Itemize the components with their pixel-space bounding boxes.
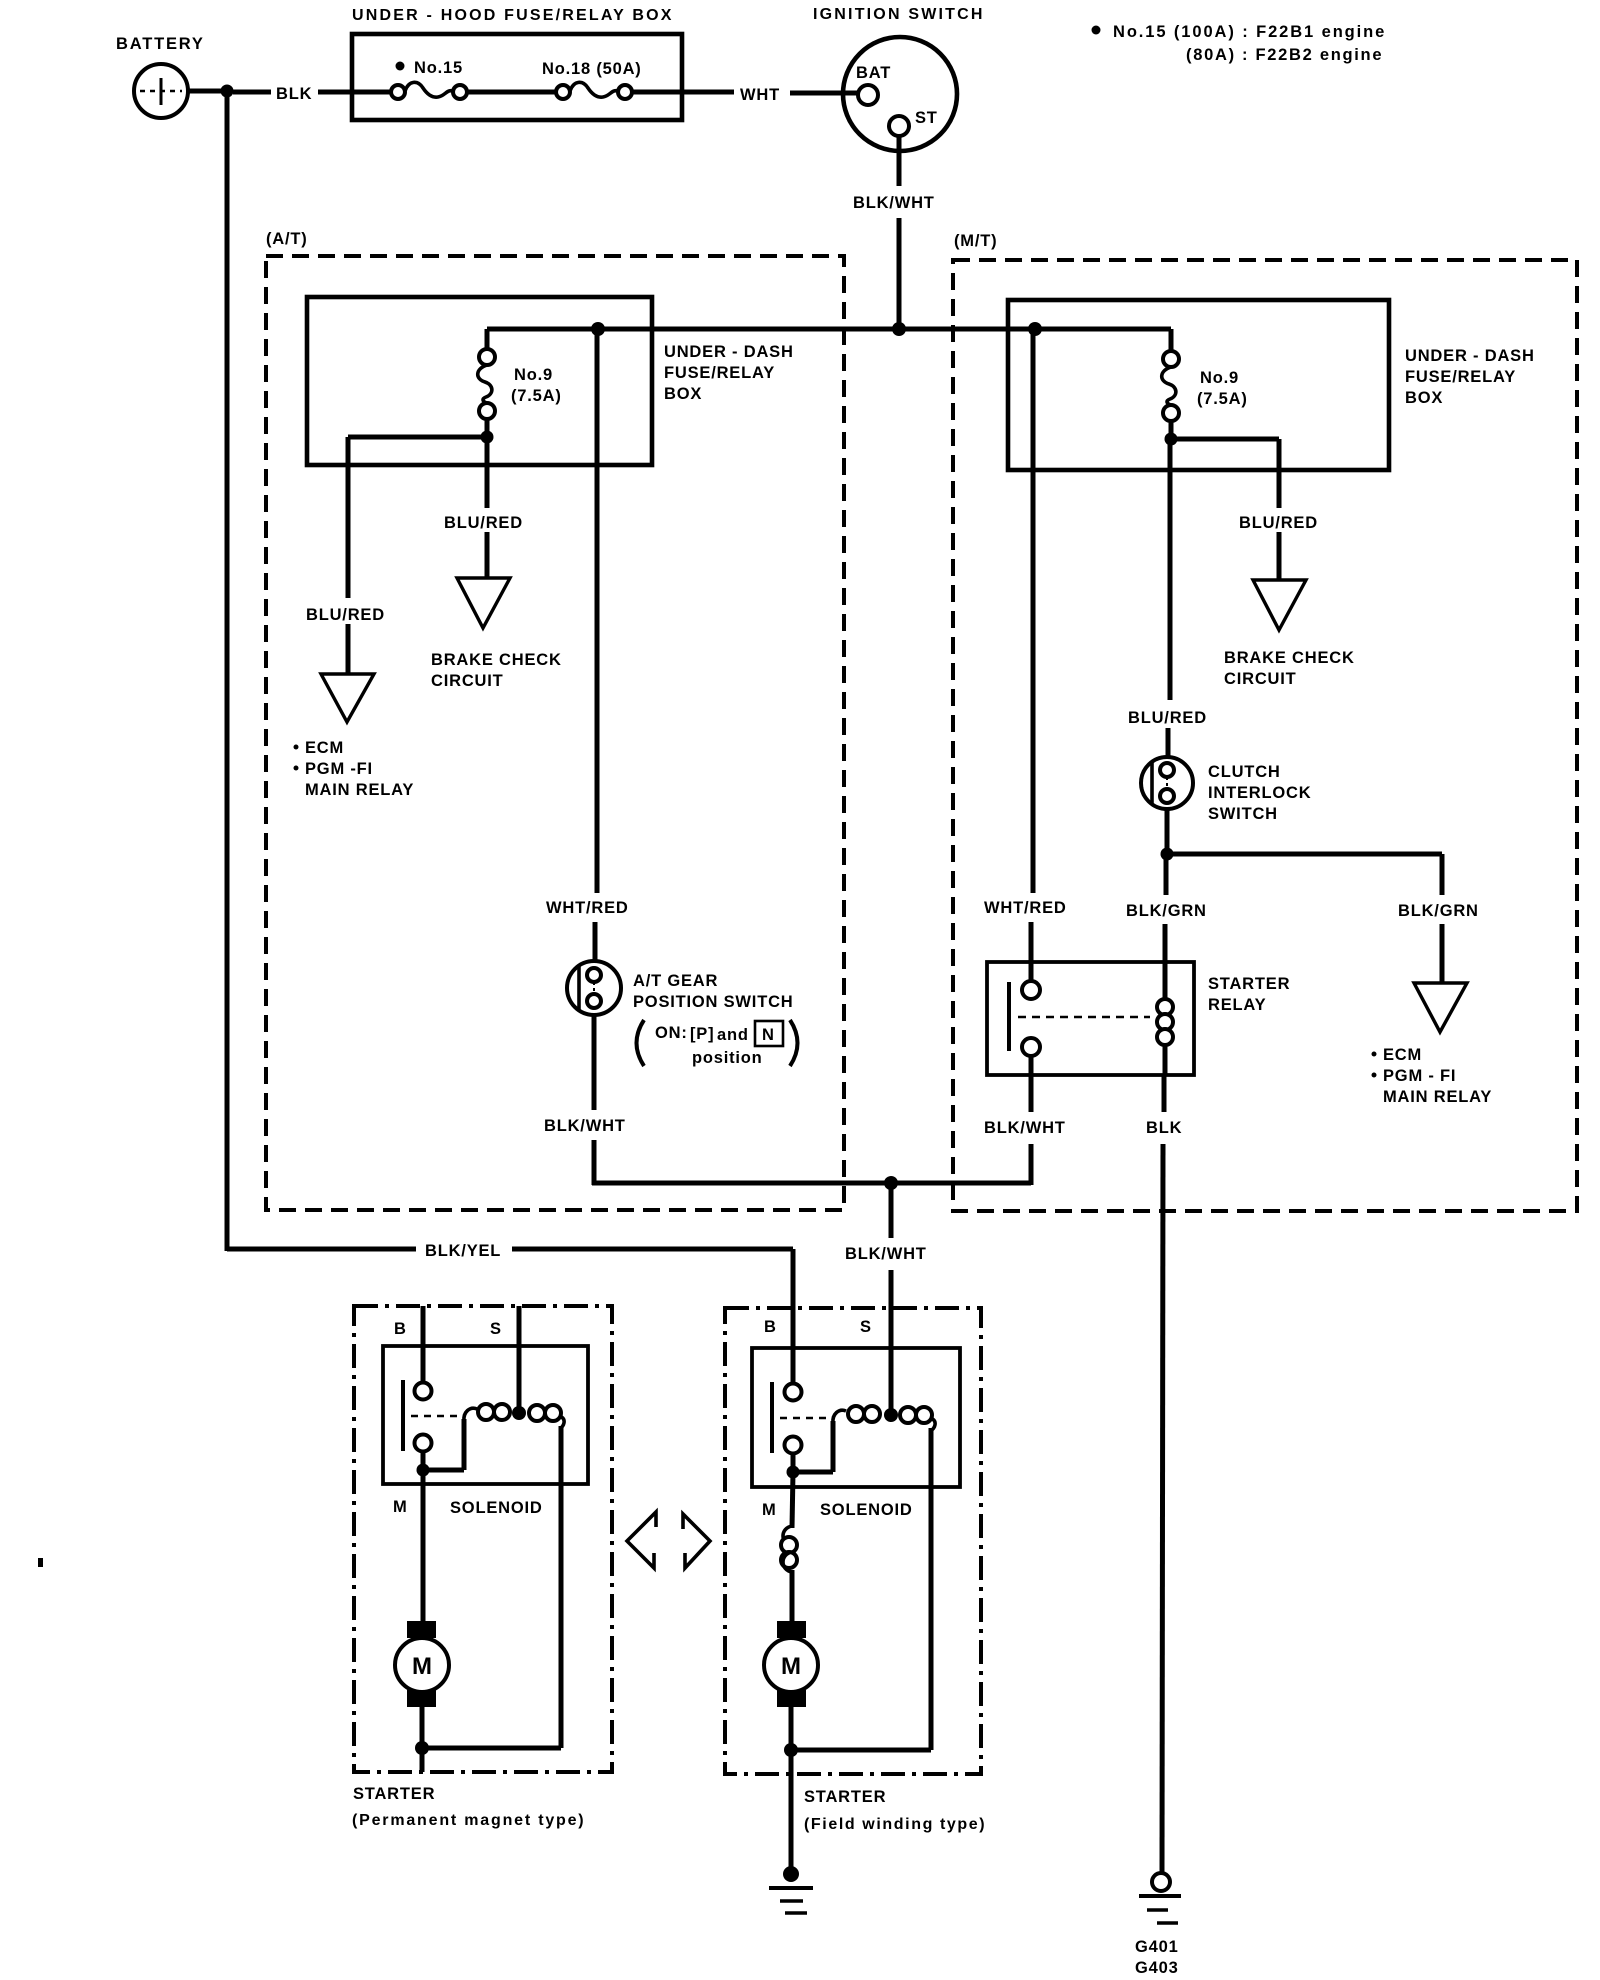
svg-text:BLK/WHT: BLK/WHT: [853, 194, 935, 212]
svg-text:and: and: [717, 1026, 749, 1044]
svg-text:BLK/WHT: BLK/WHT: [845, 1245, 927, 1263]
wire motor down starter2: [789, 1706, 794, 1874]
svg-text:BATTERY: BATTERY: [116, 35, 205, 53]
svg-text:PGM - FI: PGM - FI: [1383, 1067, 1456, 1085]
wire battery to junction: [188, 89, 230, 94]
solenoid box starter2: [752, 1348, 960, 1487]
svg-text:WHT/RED: WHT/RED: [984, 899, 1067, 917]
wire BLU/RED brake check A/T: [485, 437, 490, 577]
wire M to field winding starter2: [792, 1472, 793, 1528]
svg-text:position: position: [692, 1049, 763, 1067]
scan speck: [38, 1558, 43, 1567]
svg-text:No.15 (100A) : F22B1 engine: No.15 (100A) : F22B1 engine: [1113, 23, 1386, 41]
wire BLK/WHT from relay: [891, 1056, 1031, 1185]
svg-text:UNDER - HOOD FUSE/RELAY BOX: UNDER - HOOD FUSE/RELAY BOX: [352, 7, 674, 24]
node solenoid coil center starter2: [884, 1408, 898, 1422]
node motor return junction starter2: [784, 1743, 798, 1757]
svg-text:No.9: No.9: [1200, 369, 1239, 387]
svg-text:M: M: [412, 1653, 432, 1680]
wire WHT/RED A/T: [595, 329, 597, 963]
wire BLK/GRN branch right: [1167, 854, 1442, 982]
wire between fuses: [467, 90, 556, 95]
wire ST to main bus: [897, 136, 902, 331]
svg-text:FUSE/RELAY: FUSE/RELAY: [664, 364, 775, 382]
wire coil end down starter2: [793, 1428, 931, 1750]
svg-text:M: M: [762, 1501, 777, 1519]
A/T under-dash fuse/relay box: [307, 297, 652, 465]
node bus ignition junction: [892, 322, 906, 336]
node solenoid coil center starter1: [512, 1406, 526, 1420]
svg-text:WHT/RED: WHT/RED: [546, 899, 629, 917]
arrow to ECM M/T: [1414, 983, 1467, 1032]
svg-text:BOX: BOX: [664, 385, 702, 403]
svg-text:BLK/WHT: BLK/WHT: [544, 1117, 626, 1135]
M/T dashed enclosure: [953, 232, 1577, 1211]
svg-text:SOLENOID: SOLENOID: [450, 1499, 543, 1517]
svg-text:ON:: ON:: [655, 1024, 688, 1042]
wire starter1 B terminal: [421, 1306, 426, 1384]
wire BLU/RED to clutch switch: [1168, 439, 1170, 759]
wire BLK battery feed: [233, 90, 391, 95]
svg-text:CIRCUIT: CIRCUIT: [431, 672, 504, 690]
wire battery vertical down: [225, 91, 230, 1251]
M/T under-dash fuse/relay box: [1008, 300, 1389, 470]
wire solenoid contact to coil starter1: [423, 1419, 464, 1470]
node battery junction: [221, 85, 234, 98]
svg-text:BAT: BAT: [856, 64, 891, 82]
battery B1: [116, 35, 205, 118]
starter field winding enclosure: [725, 1308, 981, 1774]
svg-text:STARTER: STARTER: [353, 1785, 435, 1803]
wire BLK/YEL battery to starter B: [227, 1249, 793, 1384]
svg-text:ECM: ECM: [305, 739, 344, 757]
wire WHT/RED M/T: [1031, 329, 1033, 983]
starter relay: [987, 962, 1194, 1075]
svg-text:BRAKE CHECK: BRAKE CHECK: [1224, 649, 1355, 667]
label M SOLENOID starter2: [762, 1501, 913, 1519]
field winding coil starter2: [781, 1526, 797, 1572]
svg-text:SWITCH: SWITCH: [1208, 805, 1278, 823]
wire fuse box to ignition switch: [632, 92, 858, 93]
svg-text:WHT: WHT: [740, 86, 780, 104]
solenoid contacts starter1: [403, 1380, 458, 1452]
svg-text:N: N: [762, 1026, 775, 1044]
svg-text:INTERLOCK: INTERLOCK: [1208, 784, 1311, 802]
wire coil end down starter1: [423, 1426, 561, 1748]
wire clutch switch to junction: [1165, 809, 1170, 856]
svg-text:BLU/RED: BLU/RED: [1239, 514, 1318, 532]
svg-text:ST: ST: [915, 109, 938, 127]
label M/T under-dash fuse/relay box: [1405, 347, 1535, 407]
label ECM PGM-FI main relay M/T: [1372, 1046, 1493, 1106]
clutch interlock switch: [1141, 757, 1193, 809]
svg-text:BLK: BLK: [1146, 1119, 1182, 1137]
svg-text:PGM -FI: PGM -FI: [305, 760, 373, 778]
node bus MT junction: [1028, 322, 1042, 336]
label brake check circuit M/T: [1224, 649, 1355, 688]
solenoid box starter1: [383, 1346, 588, 1484]
svg-text:SOLENOID: SOLENOID: [820, 1501, 913, 1519]
svg-text:M: M: [781, 1653, 801, 1680]
label ON P and N position: [637, 1020, 798, 1067]
pin ST: [889, 109, 938, 136]
label fuse No.9 A/T: [511, 366, 562, 405]
fuse No.15 label: [396, 59, 463, 77]
solenoid contacts starter2: [772, 1382, 827, 1454]
node bus AT junction: [591, 322, 605, 336]
svg-text:No.9: No.9: [514, 366, 553, 384]
svg-text:BLU/RED: BLU/RED: [1128, 709, 1207, 727]
svg-text:[P]: [P]: [690, 1025, 714, 1043]
svg-text:(Field winding type): (Field winding type): [804, 1816, 986, 1833]
node motor return junction starter1: [415, 1741, 429, 1755]
svg-text:BLK/YEL: BLK/YEL: [425, 1242, 501, 1260]
label starter2: [804, 1788, 986, 1833]
wire field winding to motor starter2: [790, 1570, 795, 1624]
fuse No.9 M/T: [1162, 329, 1179, 439]
svg-text:STARTER: STARTER: [1208, 975, 1290, 993]
interchange chevrons: [627, 1512, 710, 1568]
arrow to brake check circuit A/T: [457, 578, 510, 628]
svg-text:UNDER - DASH: UNDER - DASH: [1405, 347, 1535, 365]
svg-text:STARTER: STARTER: [804, 1788, 886, 1806]
svg-text:BLK/WHT: BLK/WHT: [984, 1119, 1066, 1137]
svg-text:BLK/GRN: BLK/GRN: [1126, 902, 1207, 920]
svg-text:G403: G403: [1135, 1959, 1179, 1977]
under-hood fuse/relay box: [352, 34, 682, 120]
wire fuse output branch left: [348, 437, 487, 673]
wire M to motor starter1: [421, 1470, 426, 1624]
svg-text:CIRCUIT: CIRCUIT: [1224, 670, 1297, 688]
svg-text:UNDER - DASH: UNDER - DASH: [664, 343, 794, 361]
fuse No.9 A/T: [478, 329, 495, 437]
arrow to brake check circuit M/T: [1253, 580, 1306, 630]
svg-text:No.15: No.15: [414, 59, 463, 77]
starter permanent magnet enclosure: [354, 1306, 612, 1772]
label M SOLENOID starter1: [393, 1498, 543, 1517]
node fuse No.9 A/T output: [481, 431, 494, 444]
svg-text:BLK/GRN: BLK/GRN: [1398, 902, 1479, 920]
svg-text:RELAY: RELAY: [1208, 996, 1266, 1014]
svg-text:(7.5A): (7.5A): [1197, 390, 1248, 408]
svg-text:A/T GEAR: A/T GEAR: [633, 972, 718, 990]
label brake check circuit A/T: [431, 651, 562, 690]
motor starter2: [764, 1621, 818, 1707]
svg-text:B: B: [764, 1318, 777, 1336]
svg-text:BOX: BOX: [1405, 389, 1443, 407]
ground starter2: [769, 1866, 813, 1913]
wire BLK/WHT A/T switch down: [592, 1015, 893, 1185]
label starter relay: [1208, 975, 1290, 1014]
arrow to ECM A/T: [321, 674, 374, 722]
label ECM PGM-FI main relay A/T: [294, 739, 415, 799]
svg-text:CLUTCH: CLUTCH: [1208, 763, 1281, 781]
label starter1: [352, 1785, 585, 1829]
node BLK/WHT junction: [884, 1176, 898, 1190]
svg-text:ECM: ECM: [1383, 1046, 1422, 1064]
svg-text:(Permanent magnet type): (Permanent magnet type): [352, 1812, 585, 1829]
svg-text:BLK: BLK: [276, 85, 312, 103]
wire BLK/GRN to starter relay coil: [1165, 854, 1166, 1002]
ground G401 G403: [1135, 1873, 1181, 1977]
svg-text:BRAKE CHECK: BRAKE CHECK: [431, 651, 562, 669]
svg-text:(80A) : F22B2 engine: (80A) : F22B2 engine: [1186, 46, 1383, 64]
svg-text:MAIN RELAY: MAIN RELAY: [1383, 1088, 1492, 1106]
fuse No.18: [556, 82, 632, 99]
svg-text:(M/T): (M/T): [954, 232, 997, 250]
A/T gear position switch: [567, 961, 621, 1015]
solenoid coil starter1: [464, 1404, 564, 1428]
A/T dashed enclosure: [266, 230, 844, 1210]
svg-text:BLU/RED: BLU/RED: [306, 606, 385, 624]
wire starter1 S terminal: [517, 1306, 522, 1408]
svg-text:POSITION SWITCH: POSITION SWITCH: [633, 993, 794, 1011]
label clutch interlock switch: [1208, 763, 1311, 823]
wire motor down starter1: [420, 1706, 425, 1772]
svg-text:(A/T): (A/T): [266, 230, 308, 248]
label A/T under-dash fuse/relay box: [664, 343, 794, 403]
svg-text:MAIN RELAY: MAIN RELAY: [305, 781, 414, 799]
note No.15 engine ratings: [1092, 23, 1387, 64]
svg-text:FUSE/RELAY: FUSE/RELAY: [1405, 368, 1516, 386]
svg-text:No.18 (50A): No.18 (50A): [542, 60, 642, 78]
svg-text:BLU/RED: BLU/RED: [444, 514, 523, 532]
node BLK/GRN junction: [1161, 848, 1174, 861]
svg-text:S: S: [490, 1320, 502, 1338]
svg-text:S: S: [860, 1318, 872, 1336]
solenoid coil starter2: [833, 1406, 935, 1430]
label fuse No.9 M/T: [1197, 369, 1248, 408]
ignition switch: [813, 6, 985, 151]
wire main bus horizontal: [487, 327, 1171, 332]
pin BAT: [856, 64, 891, 105]
svg-text:(7.5A): (7.5A): [511, 387, 562, 405]
svg-text:B: B: [394, 1320, 407, 1338]
svg-text:M: M: [393, 1498, 408, 1516]
motor starter1: [395, 1621, 449, 1707]
node solenoid M junction starter1: [417, 1464, 430, 1477]
svg-text:G401: G401: [1135, 1938, 1179, 1956]
wire fuse output branch right M/T: [1171, 439, 1279, 579]
wire BLK relay to ground: [1162, 1075, 1164, 1873]
wire BLK/WHT to starter S: [889, 1183, 894, 1414]
fuse No.15: [391, 82, 467, 99]
wire solenoid contact to coil starter2: [793, 1421, 833, 1472]
label A/T gear position switch: [633, 972, 794, 1011]
node solenoid M junction starter2: [787, 1466, 800, 1479]
node fuse No.9 M/T output: [1165, 433, 1178, 446]
svg-text:IGNITION SWITCH: IGNITION SWITCH: [813, 6, 985, 23]
